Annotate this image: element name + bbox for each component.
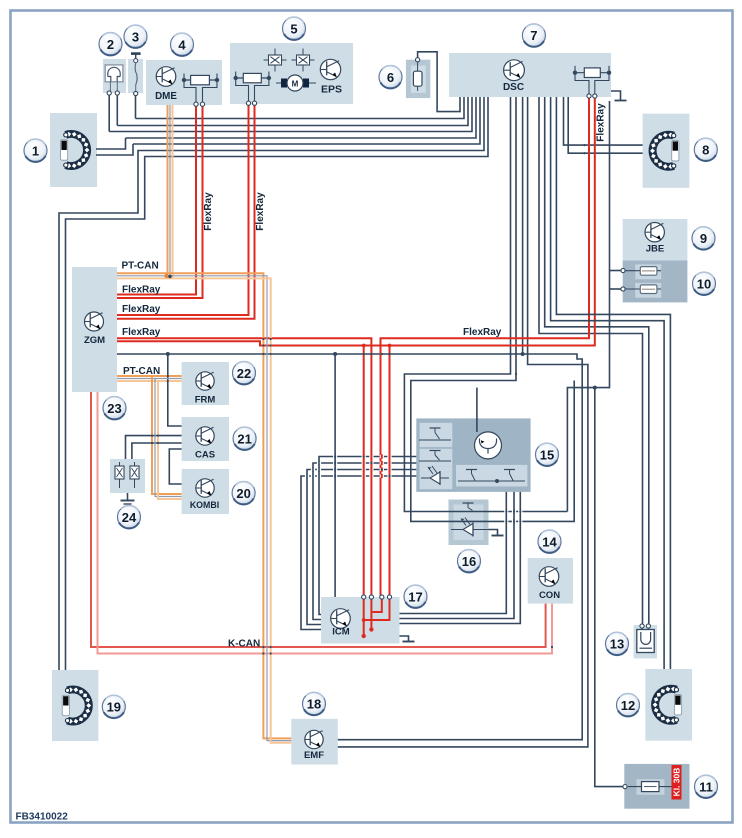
box24 valve right <box>130 462 139 488</box>
wheel speed sensor 12 box <box>645 669 692 741</box>
wire sensor1 upper <box>96 138 126 149</box>
PT-CAN 2 orange1 <box>117 375 182 377</box>
svg-text:16: 16 <box>462 554 476 569</box>
fuse 6 icon <box>413 61 422 91</box>
PT-CAN main gray <box>117 276 291 741</box>
box15 bottom switch 2 <box>495 470 515 484</box>
wheel speed sensor 19 box <box>52 670 98 741</box>
wire box15 pin4 to ICM <box>301 476 416 630</box>
wire ZGM line branch to ICM top <box>334 354 336 597</box>
number circle 22 <box>233 362 256 385</box>
svg-text:20: 20 <box>236 486 250 501</box>
number circle 14 <box>538 530 561 553</box>
svg-text:FRM: FRM <box>195 395 216 406</box>
box15 switch top-left <box>419 428 451 440</box>
number circle 19 <box>102 695 125 718</box>
FlexRay ICM inner elbow <box>372 597 382 612</box>
FlexRay ICM inner line <box>370 597 372 630</box>
wire sensor1 lower <box>96 144 133 155</box>
svg-text:14: 14 <box>542 534 557 549</box>
svg-text:3: 3 <box>132 29 139 44</box>
wire DSC terminator line <box>567 101 609 512</box>
wire box15 bottom pin2 to ICM right <box>400 492 515 619</box>
FlexRay main upper left segment <box>117 338 371 597</box>
PT-CAN main orange1 <box>117 273 291 738</box>
svg-text:JBE: JBE <box>646 244 664 255</box>
wire box15 top feed <box>476 388 478 432</box>
wire ZGM line branch to CAS <box>168 354 182 426</box>
box16 LED <box>451 529 489 531</box>
EPS FlexRay terminals <box>246 101 250 105</box>
number circle 11 <box>695 775 718 798</box>
wheel speed sensor 8 box <box>643 114 690 188</box>
wire bus line L7 to sensor19 right <box>66 97 489 670</box>
number circle 1 <box>24 139 47 162</box>
ICM ECU icon <box>331 609 351 629</box>
K-CAN upper line <box>91 392 546 647</box>
svg-text:19: 19 <box>107 700 121 715</box>
FlexRay ICM branch 2 <box>365 346 390 621</box>
DSC control unit box <box>449 53 611 97</box>
fuse 10a <box>635 264 661 279</box>
box 15 sub mid-left <box>420 449 453 467</box>
bulb 13 icon <box>637 627 654 653</box>
DSC terminating resistor <box>573 66 611 96</box>
fuse box 10 <box>623 261 688 303</box>
wire box24 lower to CAS <box>132 443 182 459</box>
EMF control unit box <box>291 719 338 765</box>
bulb 13 box <box>634 625 657 658</box>
svg-text:PT-CAN: PT-CAN <box>122 261 159 272</box>
svg-text:FlexRay: FlexRay <box>122 327 161 338</box>
box15 circle icon <box>475 432 502 459</box>
svg-text:23: 23 <box>107 401 121 416</box>
svg-text:PT-CAN: PT-CAN <box>123 366 160 377</box>
box 15 sub bottom-left <box>420 466 453 489</box>
KOMBI ECU icon <box>196 479 214 497</box>
wire box3 pin down <box>135 94 137 119</box>
number circle 9 <box>692 227 715 250</box>
fuse 10a terminal <box>621 268 625 272</box>
switch 3 pin <box>134 91 138 95</box>
wire JBE fuse2 stub <box>610 288 624 290</box>
FRM ECU icon <box>196 372 214 390</box>
wire bus line L5 <box>133 97 480 144</box>
svg-text:5: 5 <box>290 21 297 36</box>
box15 bottom switch 1 <box>458 470 525 482</box>
DME FlexRay terminals <box>194 102 198 106</box>
box16 ground symbol <box>489 530 498 536</box>
box 24 <box>110 459 145 493</box>
CON ECU icon <box>539 567 559 587</box>
number circle 18 <box>303 692 326 715</box>
wire DSC pin to box13 left <box>539 97 643 625</box>
wire bus line L1 <box>136 97 465 119</box>
number circle 10 <box>693 272 716 295</box>
box15 LED icon <box>421 466 449 485</box>
FlexRay EPS pair left <box>117 104 249 315</box>
K-CAN lower line <box>98 392 553 654</box>
wire DSC pin to sensor12 right <box>556 97 670 669</box>
FlexRay main lower <box>117 97 595 346</box>
number circle 15 <box>536 443 559 466</box>
wire fuse6 to DSC <box>418 52 460 112</box>
svg-text:EPS: EPS <box>321 84 342 96</box>
FlexRay main upper right segment <box>381 97 590 597</box>
box 15 <box>416 418 530 492</box>
wire DSC loop upper via box16 <box>404 97 567 512</box>
hop vertical redraws <box>363 454 365 458</box>
fuse 11 terminal <box>623 785 627 789</box>
number circle 7 <box>522 24 545 47</box>
wire DSC pin to EMF lower <box>338 97 588 747</box>
DSC ECU icon <box>504 60 525 81</box>
box 15 sub top-left <box>420 423 453 447</box>
CAS ECU icon <box>196 427 214 445</box>
wire JBE fuse1 stub <box>610 270 624 272</box>
hop gaps <box>333 455 337 458</box>
wire bus line L2 <box>117 97 468 126</box>
svg-text:FlexRay: FlexRay <box>122 285 161 296</box>
number circle 16 <box>458 550 481 573</box>
PT-CAN DME drop gray <box>169 105 171 276</box>
FlexRay DME pair right <box>117 105 203 298</box>
fuse 6 pin <box>416 58 420 62</box>
DSC FlexRay terminals <box>587 94 591 98</box>
wire DSC terminator symbol <box>611 91 621 101</box>
fuse 10b <box>635 283 661 298</box>
wire DSC to sensor8 upper <box>564 97 643 145</box>
wire box15 bottom pin3 to ICM right <box>400 492 521 624</box>
red junction dots <box>362 344 366 348</box>
svg-text:DME: DME <box>155 91 177 102</box>
FlexRay ICM branch 1 <box>363 346 365 637</box>
switch 3 icon <box>131 54 141 92</box>
FRM control unit box <box>182 362 229 405</box>
EPS control unit box <box>230 43 353 104</box>
number circle 21 <box>233 427 256 450</box>
DME control unit box <box>146 60 222 105</box>
wire CAS to KOMBI link <box>169 449 181 484</box>
wheel speed sensor 1 box <box>50 113 97 187</box>
svg-text:FlexRay: FlexRay <box>255 192 266 231</box>
svg-text:4: 4 <box>178 37 186 52</box>
number circle 12 <box>617 694 640 717</box>
PT-CAN 2 orange2 <box>117 380 182 382</box>
svg-text:Kl. 30B: Kl. 30B <box>671 768 681 797</box>
svg-text:FlexRay: FlexRay <box>596 103 607 142</box>
PT-CAN DME drop orange2 <box>172 105 174 278</box>
svg-text:CON: CON <box>539 590 560 601</box>
svg-text:ZGM: ZGM <box>84 335 105 346</box>
svg-text:FlexRay: FlexRay <box>203 192 214 231</box>
svg-text:FlexRay: FlexRay <box>122 304 161 315</box>
svg-text:10: 10 <box>697 276 711 291</box>
svg-text:M: M <box>292 80 299 89</box>
number circle 4 <box>171 33 194 56</box>
EPS terminating resistor <box>234 72 272 103</box>
PT-CAN 2 drop orange2 <box>158 381 182 499</box>
EMF ECU icon <box>305 730 323 748</box>
CON control unit box <box>528 558 573 604</box>
svg-text:ICM: ICM <box>332 627 350 638</box>
box 16 <box>449 500 489 546</box>
svg-text:15: 15 <box>540 447 554 462</box>
svg-text:8: 8 <box>702 142 709 157</box>
PT-CAN 2 drop gray <box>155 379 182 497</box>
svg-text:12: 12 <box>621 698 635 713</box>
FlexRay EPS pair right <box>117 104 255 319</box>
svg-text:FlexRay: FlexRay <box>463 327 502 338</box>
EPS motor icon <box>276 75 316 91</box>
wire bus line L6 to sensor19 left <box>59 97 484 670</box>
wire DSC to sensor8 lower <box>568 97 642 153</box>
number circle 5 <box>283 17 306 40</box>
number circle 2 <box>99 33 122 56</box>
wire DSC pin to box13 right <box>545 97 649 625</box>
wire box24 upper to CAS <box>126 436 182 459</box>
PT-CAN DME drop orange1 <box>167 105 169 273</box>
number circle 3 <box>124 25 147 48</box>
ICM FlexRay terminals <box>362 595 366 599</box>
JBE ECU icon <box>645 223 664 242</box>
JBE box 9 <box>623 219 688 261</box>
wire box15 pin1 to ICM <box>319 457 416 615</box>
FlexRay DME pair left <box>117 105 196 295</box>
svg-text:DSC: DSC <box>503 82 524 93</box>
KOMBI control unit box <box>182 469 229 514</box>
svg-text:11: 11 <box>699 779 713 794</box>
svg-text:13: 13 <box>610 637 624 652</box>
svg-text:18: 18 <box>307 697 321 712</box>
Kl30B fuse box 11 <box>624 764 689 809</box>
svg-text:K-CAN: K-CAN <box>228 638 260 649</box>
number circle 13 <box>606 632 629 655</box>
EPS valve 1 <box>264 49 287 72</box>
number circle 20 <box>232 482 255 505</box>
PT-CAN main orange2 <box>117 278 291 742</box>
wire bus line L3 <box>109 97 472 132</box>
box15 switch mid-left <box>419 451 451 462</box>
DME ECU icon <box>156 67 176 87</box>
svg-text:6: 6 <box>387 70 394 85</box>
crossing hop dots <box>509 353 511 355</box>
svg-text:KOMBI: KOMBI <box>190 500 219 510</box>
wire box15 pin3 to ICM <box>307 470 416 625</box>
bulb 13 terminals <box>640 624 644 628</box>
number circle 24 <box>118 506 141 529</box>
switch 3 box <box>128 59 143 93</box>
box 15 sub bottom-wide <box>456 465 527 487</box>
wire DSC pin to sensor12 left <box>551 97 665 669</box>
svg-text:9: 9 <box>700 231 707 246</box>
fuse 11 icon <box>628 782 672 792</box>
PT-CAN junction dot <box>164 274 168 278</box>
sensor 2 box <box>103 59 126 93</box>
ZGM central gateway box <box>72 267 117 392</box>
svg-text:2: 2 <box>107 37 114 52</box>
ZGM ECU icon <box>85 312 104 331</box>
number circle 6 <box>379 66 402 89</box>
wire DSC pin join ZGM line <box>522 97 524 354</box>
ICM control unit box <box>321 597 400 644</box>
number circle 23 <box>103 397 126 420</box>
wire ZGM long dark line to EMF <box>117 354 582 740</box>
svg-text:7: 7 <box>530 28 537 43</box>
fuse 10b terminal <box>621 287 625 291</box>
svg-text:22: 22 <box>237 366 251 381</box>
fuse 11 holder <box>637 779 665 795</box>
box24 valve left <box>115 462 124 488</box>
wire box15 pin2 to ICM <box>313 463 416 620</box>
svg-text:1: 1 <box>32 143 39 158</box>
PT-CAN 2 gray <box>117 378 182 380</box>
svg-text:21: 21 <box>237 431 251 446</box>
fuse 6 box <box>406 60 430 98</box>
PT-CAN 2 drop orange1 <box>152 376 182 494</box>
number circle 8 <box>694 138 717 161</box>
svg-text:17: 17 <box>408 589 422 604</box>
svg-text:24: 24 <box>122 510 137 525</box>
junction dots dark <box>166 352 170 356</box>
ICM terminator symbol <box>400 636 409 642</box>
box16 switch <box>452 503 484 512</box>
svg-text:CAS: CAS <box>195 450 215 461</box>
Kl30B red label <box>672 765 682 800</box>
wire box15 bottom pin1 to ICM right <box>400 492 507 614</box>
CAS control unit box <box>182 417 229 461</box>
EPS valve 2 <box>292 49 315 72</box>
sensor 2 icon <box>105 65 123 92</box>
wire DSC loop lower via box16 <box>411 97 574 521</box>
DME terminating resistor <box>182 74 219 105</box>
wire box2 left pin down <box>108 93 110 132</box>
sensor 2 pins <box>107 91 111 95</box>
wire box2 right pin down <box>116 93 118 126</box>
svg-text:EMF: EMF <box>304 750 324 761</box>
svg-text:FB3410022: FB3410022 <box>16 812 69 823</box>
wire bus line L4 <box>126 97 477 138</box>
number circle 17 <box>404 585 427 608</box>
ground below box24 <box>127 493 129 501</box>
EPS ECU icon <box>320 59 340 79</box>
wire box11 feed <box>595 388 625 787</box>
